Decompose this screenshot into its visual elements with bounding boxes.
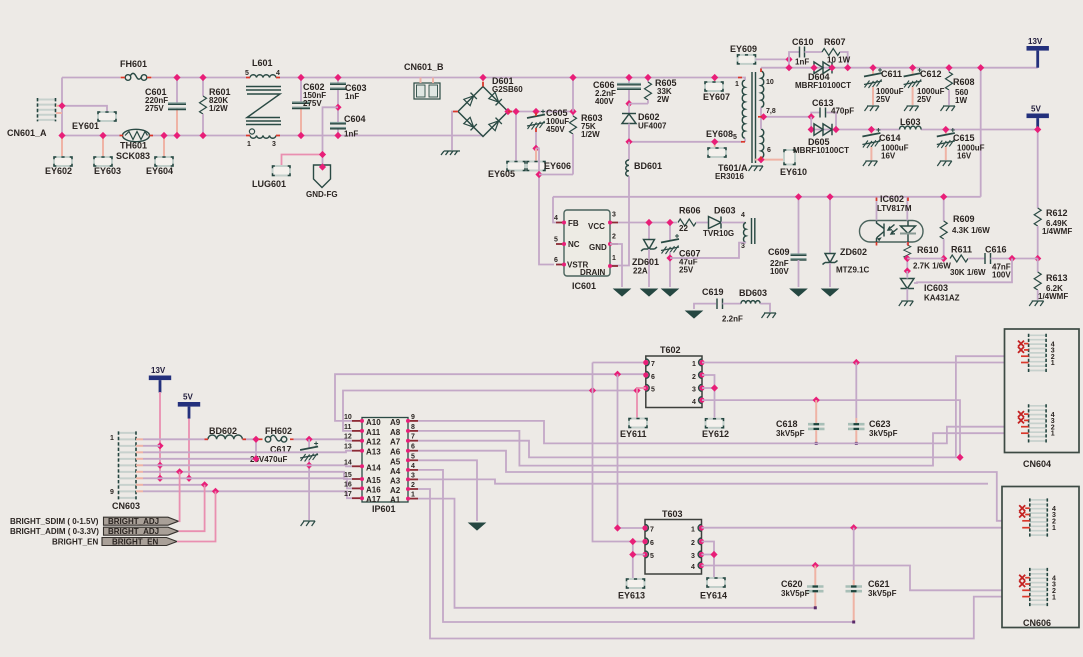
capacitor C604 [330,104,366,139]
resistor R601 [199,74,230,139]
wire: bottom AC line [62,78,123,136]
svg-text:13V: 13V [151,366,166,375]
svg-text:A11: A11 [366,428,381,437]
svg-text:16V: 16V [881,152,896,161]
test point EY608 [706,129,733,157]
ground chassis (R608) [941,106,956,111]
svg-text:2: 2 [692,374,696,381]
svg-text:12: 12 [344,434,352,441]
capacitor C609 [768,193,807,287]
svg-text:6: 6 [651,374,655,381]
svg-text:CN603: CN603 [112,501,140,511]
resistor R603 [539,108,603,175]
svg-text:EY607: EY607 [703,92,730,102]
svg-text:2.2nF: 2.2nF [722,315,743,324]
svg-text:5: 5 [650,553,654,560]
wire: T603 pins2,3 to EY614 [702,542,715,579]
net flag BRIGHT_ADIM [10,527,179,536]
wire: BRIGHT_SDIM up [179,472,180,521]
svg-text:3kV5pF: 3kV5pF [868,589,897,598]
svg-text:R607: R607 [824,37,846,47]
svg-text:30K 1/6W: 30K 1/6W [950,268,986,277]
wire: CN603 pin5 to IP601 pin14 [143,465,352,466]
svg-text:6: 6 [767,147,771,154]
svg-text:A15: A15 [366,476,381,485]
svg-text:1: 1 [1052,525,1056,532]
transformer T601/A [715,68,776,181]
svg-text:EY605: EY605 [488,169,515,179]
svg-text:3: 3 [691,553,695,560]
svg-text:3kV5pF: 3kV5pF [781,589,810,598]
net flag BRIGHT_SDIM [10,517,179,526]
svg-text:C619: C619 [702,287,724,297]
wire: C605 to VSTR [536,148,554,264]
wire: 5V down to divider [1037,130,1039,209]
svg-text:C604: C604 [344,114,366,124]
svg-text:1/2W: 1/2W [209,104,228,113]
svg-text:L603: L603 [900,117,921,127]
connector CN606 lower [1019,568,1056,606]
svg-text:A10: A10 [366,418,381,427]
capacitor C617 [250,439,318,520]
test point EY601 [72,112,116,131]
svg-text:CN601_A: CN601_A [7,128,47,138]
wire: pin1 to BD602 [143,438,208,440]
svg-text:TH601: TH601 [120,141,147,151]
svg-text:470pF: 470pF [831,107,854,116]
connector box CN606 [1002,487,1079,629]
capacitor C605 electrolytic [527,108,569,152]
svg-text:2: 2 [691,540,695,547]
wire: A5 to ground [418,460,477,521]
wire: bridge minus to earth [452,112,458,151]
svg-text:EY609: EY609 [730,44,757,54]
optocoupler IC602 [860,194,924,242]
svg-text:3: 3 [741,243,745,250]
connector CN603 [110,431,143,511]
controller IC601 [554,210,618,291]
svg-text:UF4007: UF4007 [638,122,667,131]
svg-text:FH601: FH601 [120,59,147,69]
wire: CN603 pin6 to IP601 pin15 [143,472,352,479]
svg-text:1: 1 [1052,594,1056,601]
net flag BRIGHT_EN [52,538,177,547]
resistor network IP601 [344,414,418,514]
wire: 5V feed [188,419,190,479]
wire: CN603 pin4 [143,439,256,459]
svg-text:C618: C618 [776,419,798,429]
bridge rectifier D601 [458,74,523,137]
svg-text:EY612: EY612 [702,429,729,439]
svg-text:A5: A5 [390,457,401,466]
capacitor C606 [593,74,641,107]
svg-text:A3: A3 [390,476,401,485]
capacitor C619 [702,287,743,324]
connector box CN604 [1005,329,1080,469]
svg-text:R613: R613 [1046,273,1068,283]
power flag 13V (bottom) [149,366,171,393]
svg-text:C612: C612 [920,69,942,79]
svg-text:5: 5 [733,134,737,141]
svg-text:5: 5 [245,70,249,77]
ground chassis (C612) [904,106,919,111]
svg-text:4: 4 [276,70,280,77]
svg-text:IC601: IC601 [572,281,596,291]
svg-text:400V: 400V [595,97,614,106]
svg-text:2W: 2W [657,95,669,104]
ground chassis (BD603) [762,313,777,318]
svg-text:8: 8 [411,424,415,431]
svg-text:1: 1 [691,527,695,534]
svg-text:BD602: BD602 [209,426,237,436]
svg-text:A9: A9 [390,418,401,427]
svg-text:D603: D603 [714,206,736,216]
svg-text:TVR10G: TVR10G [703,229,734,238]
resistor R605 [629,74,677,104]
wire: DC+ rail [508,111,573,113]
svg-text:2: 2 [612,234,616,241]
node junction [58,102,65,109]
svg-text:BD601: BD601 [634,161,662,171]
ground (ZD601) [641,289,657,296]
svg-text:CN606: CN606 [1023,618,1051,628]
svg-text:R608: R608 [953,77,975,87]
svg-text:DRAIN: DRAIN [580,268,606,277]
svg-text:7: 7 [411,434,415,441]
svg-text:3: 3 [612,212,616,219]
ground (A5) [469,523,485,530]
svg-text:1: 1 [110,435,114,442]
wire: A9 to CN604 pin3 [418,421,1021,444]
capacitor C616 [968,245,1038,280]
svg-text:100V: 100V [770,267,789,276]
svg-text:R606: R606 [679,206,701,216]
capacitor C620 [781,566,824,610]
power flag 13V [1027,37,1049,68]
svg-text:IP601: IP601 [372,504,396,514]
svg-text:11: 11 [344,424,352,431]
capacitor C621 [846,528,897,624]
svg-text:EY603: EY603 [94,166,121,176]
svg-text:BRIGHT_ADJ: BRIGHT_ADJ [108,517,159,526]
svg-text:9: 9 [110,489,114,496]
svg-text:25V: 25V [876,95,891,104]
svg-text:C611: C611 [881,69,902,79]
svg-text:VCC: VCC [588,222,605,231]
svg-text:C609: C609 [768,247,790,257]
svg-text:A12: A12 [366,438,381,447]
svg-text:450V: 450V [546,125,565,134]
svg-text:BRIGHT_SDIM ( 0-1.5V): BRIGHT_SDIM ( 0-1.5V) [10,517,99,526]
wire: feedback rail [553,196,981,198]
wire: vertical to T603 pin6 [593,363,646,542]
svg-text:6: 6 [411,444,415,451]
wire: CN603 pin7 to IP601 pin16 [143,478,352,488]
capacitor C607 [661,219,701,287]
svg-text:275V: 275V [145,104,164,113]
ground (ZD602) [822,289,838,296]
svg-text:T602: T602 [660,345,681,355]
ground (C609) [791,289,807,296]
wire: A2 to CN606 pin1 low [418,489,1021,639]
svg-text:A2: A2 [390,486,401,495]
svg-text:16: 16 [344,481,352,488]
ground (C607) [662,289,678,296]
svg-text:7: 7 [650,527,654,534]
bead BD601 [610,142,662,266]
svg-text:A8: A8 [390,428,401,437]
wire: A7 to CN604 pin1 [418,356,1021,457]
svg-text:GND: GND [589,243,607,252]
wire: 13V feed [159,392,161,478]
wire: CN603 pin8 [143,484,205,486]
wire: BD602 to FH602 [242,438,259,440]
test point EY604 [146,132,173,176]
wire: center tap 7,8 [761,116,811,118]
svg-text:4: 4 [691,564,695,571]
capacitor C601 [145,74,186,139]
resistor R613 [1034,259,1068,302]
resistor R610 [904,242,952,275]
svg-text:1W: 1W [955,96,967,105]
svg-text:1: 1 [1051,431,1055,438]
capacitor C618 [776,400,825,445]
common-mode choke L601 [245,58,281,148]
svg-text:EY602: EY602 [45,166,72,176]
svg-text:NC: NC [568,240,580,249]
ground chassis (C611) [865,106,880,111]
svg-text:2.7K 1/6W: 2.7K 1/6W [913,262,951,271]
wire: 13V to feedback rail [980,68,982,197]
svg-text:3: 3 [272,141,276,148]
resistor R608 [945,64,974,105]
wire: T602 pins2,3 to EY612 [702,375,715,419]
svg-text:5: 5 [411,453,415,460]
wire: A3 to CN606 pin3 [418,479,988,483]
connector CN601_A [7,98,62,138]
ground chassis (C617) [301,521,316,526]
bead BD602 [208,426,242,439]
svg-text:C616: C616 [985,245,1007,255]
svg-text:MTZ9.1C: MTZ9.1C [836,266,870,275]
wire: top AC line [62,77,120,79]
svg-text:10 1W: 10 1W [827,56,851,65]
svg-text:15: 15 [344,472,352,479]
capacitor C615 [937,126,985,161]
test point EY603 [94,132,121,176]
wire: C603/C604 midpoint to chassis [323,107,339,165]
svg-text:EY614: EY614 [700,591,727,601]
wire: CN603 pin9 to IP601 pin17 [143,491,352,498]
test point EY609 [730,44,793,64]
resistor R607 [805,37,852,71]
wire: 13V rail [761,67,1038,69]
svg-text:MBRF10100CT: MBRF10100CT [795,81,851,90]
wire: pin2 to 13V [143,445,160,447]
ground earth (bridge) [441,151,460,155]
wire: 5V rail [811,117,899,130]
svg-text:2: 2 [411,482,415,489]
wire: BRIGHT_EN up [177,491,216,541]
svg-text:D602: D602 [638,112,660,122]
svg-text:ER3016: ER3016 [715,172,744,181]
connector CN604 upper [1018,334,1055,372]
ground chassis (C615) [937,161,952,166]
svg-text:FH602: FH602 [265,426,292,436]
svg-text:C621: C621 [868,579,890,589]
svg-text:5: 5 [554,237,558,244]
svg-text:A4: A4 [390,467,401,476]
svg-text:CN601_B: CN601_B [404,62,444,72]
svg-text:3kV5pF: 3kV5pF [869,429,898,438]
svg-text:T603: T603 [662,509,683,519]
svg-text:6: 6 [554,257,558,264]
connector CN601_B [404,62,444,99]
wire: T602 pin7 feed [593,362,646,364]
svg-text:G2SB60: G2SB60 [492,85,523,94]
ground chassis (C614) [863,161,878,166]
svg-text:1/2W: 1/2W [581,130,600,139]
svg-text:25V: 25V [679,266,694,275]
svg-text:C623: C623 [869,419,891,429]
capacitor C614 [862,126,908,161]
shunt regulator IC603 [901,259,1013,303]
svg-text:EY601: EY601 [72,121,99,131]
wire: A8 to CN604 pin2 [418,431,1021,466]
transformer T603 [642,509,704,574]
svg-text:SCK083: SCK083 [116,151,150,161]
svg-text:IC602: IC602 [880,194,904,204]
svg-text:LUG601: LUG601 [252,179,286,189]
svg-text:4.3K 1/6W: 4.3K 1/6W [952,226,990,235]
svg-text:13V: 13V [1028,37,1043,46]
test point EY607 [703,74,730,102]
bead BD603 [739,288,770,312]
svg-text:5V: 5V [1031,105,1041,114]
snubber C610 [785,37,813,71]
wire: T602 pin5 to EY611 [637,388,646,419]
svg-text:C615: C615 [953,133,975,143]
svg-text:BRIGHT_ADJ: BRIGHT_ADJ [108,527,159,536]
svg-text:22: 22 [679,224,688,233]
svg-text:4: 4 [692,399,696,406]
test point EY610 [780,150,807,177]
node junction [319,151,326,158]
svg-text:C614: C614 [879,133,901,143]
svg-text:A7: A7 [390,438,401,447]
svg-text:13: 13 [344,444,352,451]
wire: A1 to C620 bottom [418,499,815,608]
svg-text:EY610: EY610 [780,167,807,177]
svg-text:3: 3 [692,387,696,394]
svg-text:R610: R610 [917,245,939,255]
test point EY602 [45,136,72,177]
wire: T603 pin4 to CN606 lower pin2 [702,566,1022,591]
svg-text:10: 10 [766,79,774,86]
inductor L603 [900,117,922,130]
resistor R606 [678,206,701,234]
svg-text:A14: A14 [366,463,381,472]
wire: vertical to T603 pin7 [618,374,646,528]
wire: A4 to C621 bottom [418,470,854,622]
svg-text:6: 6 [650,540,654,547]
svg-text:1: 1 [735,81,739,88]
svg-text:4: 4 [554,215,558,222]
transformer T602 [643,345,704,408]
test point EY613 [618,579,645,601]
svg-text:R611: R611 [951,245,972,255]
svg-text:A16: A16 [366,485,381,494]
capacitor C602 [292,74,326,139]
capacitor C611 [864,64,904,105]
svg-text:4: 4 [741,212,745,219]
svg-text:100V: 100V [992,271,1011,280]
svg-text:EY613: EY613 [618,591,645,601]
wire: T602 pin4 to CN604 pin1 [702,400,960,457]
svg-text:EY608: EY608 [706,129,733,139]
svg-text:LTV817M: LTV817M [877,204,912,213]
wire: T602 pin1 to CN604 [702,362,1021,364]
svg-text:R609: R609 [953,214,975,224]
fuse FH602 [265,426,292,442]
svg-text:10: 10 [344,414,352,421]
dual diode D605 [793,124,849,155]
svg-text:5V: 5V [183,393,193,402]
svg-text:1: 1 [612,255,616,262]
wire: A6 to CN606 pin1 [418,451,1021,521]
svg-text:1nF: 1nF [795,58,809,67]
svg-text:ZD602: ZD602 [840,247,867,257]
svg-text:1nF: 1nF [345,92,359,101]
zener ZD601 [632,219,659,287]
zener ZD602 [823,193,870,287]
test point EY614 [700,578,727,601]
ground GND-FG shield [306,163,338,199]
wire: pin6 to ground and EY610 [755,156,784,163]
wire: T603 pin1 to CN606 pin2 [702,527,1022,529]
wire: CN603 pin3 to IP601 pin13 [143,451,352,453]
node junction [58,132,65,139]
wire: A11 run [343,391,637,431]
wire: branch to LUG601 [282,155,323,167]
wire: CN601_A to EY601 [62,106,107,112]
wire: FB drop [553,197,556,223]
resistor R611 [950,245,986,278]
svg-text:22A: 22A [633,267,648,276]
wire: BRIGHT_ADIM up [179,485,205,531]
svg-text:CN604: CN604 [1023,459,1051,469]
ground (C619 filter) [686,304,716,318]
svg-text:1: 1 [1051,360,1055,367]
svg-text:4: 4 [411,463,415,470]
svg-text:IC603: IC603 [924,283,948,293]
svg-text:C620: C620 [781,579,803,589]
wire: FH602 to IP601 pin12 [294,439,353,440]
capacitor C623 [848,363,898,445]
svg-text:A17: A17 [366,495,381,504]
capacitor C603 [330,74,367,107]
svg-text:BD603: BD603 [739,288,767,298]
test point EY606 [527,148,571,171]
svg-text:1/4WMF: 1/4WMF [1042,227,1072,236]
fuse FH601 [120,59,147,80]
power flag 5V (bottom) [178,393,200,419]
wire: VCC line [618,222,677,224]
resistor R609 [940,193,990,262]
ground (IC601) [614,289,630,296]
svg-text:A13: A13 [366,448,381,457]
svg-text:BRIGHT_EN: BRIGHT_EN [112,538,158,547]
